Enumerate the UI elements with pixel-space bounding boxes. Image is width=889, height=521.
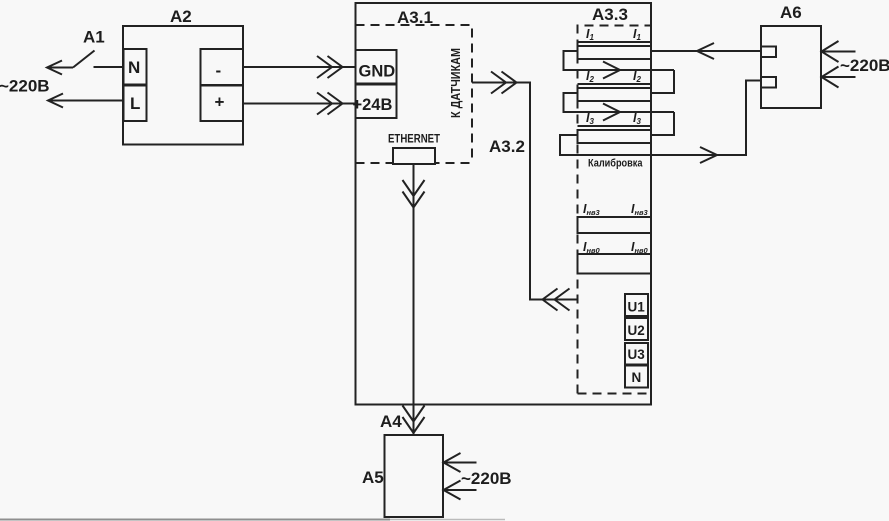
terminal U1 <box>625 294 648 316</box>
wire to sensors (A3.2) <box>472 83 578 300</box>
svg-text:GND: GND <box>359 63 396 81</box>
wire phase1 to A6 <box>651 50 761 52</box>
phase 3 left loop <box>560 81 761 156</box>
phase 2 left loop <box>564 93 578 112</box>
wire ethernet to A5 <box>413 164 415 435</box>
phase 2 labels I2 <box>586 69 641 84</box>
row Inv0 labels <box>583 240 649 255</box>
chevron into A3.3 bottom wire <box>543 289 558 311</box>
phase 3 top line <box>578 125 652 127</box>
phase 1 current arrow line <box>578 69 675 71</box>
phase 2 top line <box>578 83 652 85</box>
wire chevrons to A5 <box>403 406 425 422</box>
svg-text:ETHERNET: ETHERNET <box>388 132 441 146</box>
photo edge bottom <box>0 519 390 521</box>
module A3.1 dashed boundary <box>356 25 473 163</box>
return wire arrow <box>700 147 717 163</box>
svg-text:A1: A1 <box>83 28 105 47</box>
row Inv0 rect <box>578 254 652 274</box>
switch A1 blade <box>73 51 95 68</box>
phase 2 right loop <box>651 112 674 135</box>
row Inv3 labels <box>583 202 649 217</box>
svg-text:+: + <box>215 93 225 112</box>
svg-text:+24В: +24В <box>353 96 393 114</box>
svg-text:A3.2: A3.2 <box>489 137 525 156</box>
phase 1 terminal rect <box>578 46 652 59</box>
phase 3 labels I3 <box>586 111 641 126</box>
wire plus to +24V <box>243 103 356 105</box>
wire L arrow <box>48 100 124 102</box>
svg-text:U2: U2 <box>628 323 645 338</box>
phase 1 right loop <box>651 70 674 93</box>
A6 tab lower <box>761 77 776 88</box>
svg-text:~220В: ~220В <box>840 56 889 75</box>
svg-text:Калибровка: Калибровка <box>588 158 643 170</box>
svg-text:U3: U3 <box>628 347 646 362</box>
svg-text:К ДАТЧИКАМ: К ДАТЧИКАМ <box>449 48 463 118</box>
block A3.1 outer <box>356 3 652 405</box>
A6 220V arrow upper <box>822 51 856 53</box>
phase 1 top line <box>578 41 652 43</box>
A6 220V arrow lower <box>822 76 856 78</box>
row Inv3 rect <box>578 217 652 233</box>
phase 1 left loop <box>564 51 578 70</box>
svg-text:~220В: ~220В <box>461 469 512 488</box>
terminal GND <box>356 50 397 84</box>
terminal L <box>124 86 147 122</box>
wire N to A2 <box>94 66 124 68</box>
svg-text:A4: A4 <box>380 412 402 431</box>
A5 220V arrow lower <box>444 489 477 491</box>
svg-text:A2: A2 <box>170 7 192 26</box>
terminal plus <box>201 86 244 122</box>
terminal U3 <box>625 343 648 365</box>
terminal N <box>124 49 147 85</box>
svg-text:U1: U1 <box>628 300 646 315</box>
switch A1 arrow <box>47 67 73 69</box>
ethernet port box <box>393 148 435 164</box>
svg-text:A6: A6 <box>780 3 802 22</box>
block A5 <box>385 435 444 517</box>
phase 1 labels I1 <box>586 27 641 42</box>
svg-text:A3.3: A3.3 <box>592 5 628 24</box>
A6 tab upper <box>761 47 776 58</box>
phase 2 terminal rect <box>578 88 652 101</box>
phase 3 terminal rect <box>578 130 652 143</box>
A5 220V arrow upper <box>444 462 477 464</box>
svg-text:~220В: ~220В <box>0 77 50 96</box>
terminal minus <box>201 49 244 85</box>
svg-text:L: L <box>130 94 140 113</box>
wire minus to GND <box>243 66 356 68</box>
svg-text:A5: A5 <box>362 468 384 487</box>
terminal +24V <box>356 85 397 119</box>
svg-text:N: N <box>632 370 642 385</box>
terminal U2 <box>625 318 648 340</box>
terminal N (voltage) <box>625 366 648 388</box>
svg-text:N: N <box>128 58 140 77</box>
svg-text:-: - <box>216 61 222 80</box>
phase 2 current arrow line <box>578 111 675 113</box>
